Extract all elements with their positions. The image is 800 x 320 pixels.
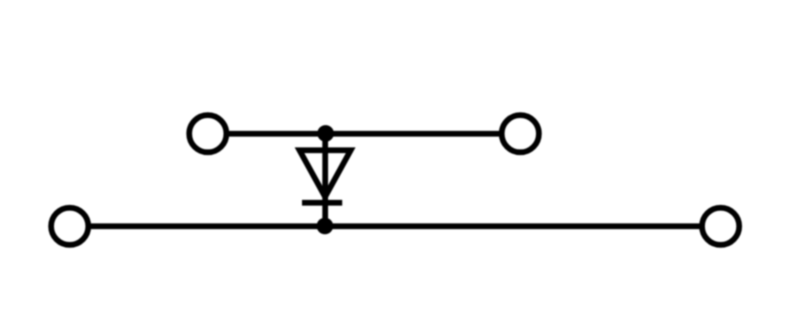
diode D1 triangle (anode) — [300, 150, 351, 197]
wire vertical link — [322, 134, 328, 227]
wire top rail — [228, 131, 500, 137]
terminal circle P3 bottom-left — [51, 208, 88, 245]
terminal circle P2 top-right — [502, 115, 539, 152]
terminal circle P1 top-left — [189, 115, 226, 152]
terminal circle P4 bottom-right — [702, 208, 739, 245]
wire bottom rail — [90, 223, 700, 229]
diode D1 cathode bar — [302, 200, 342, 206]
junction dot top node — [317, 125, 334, 142]
junction dot bottom node — [317, 218, 334, 235]
